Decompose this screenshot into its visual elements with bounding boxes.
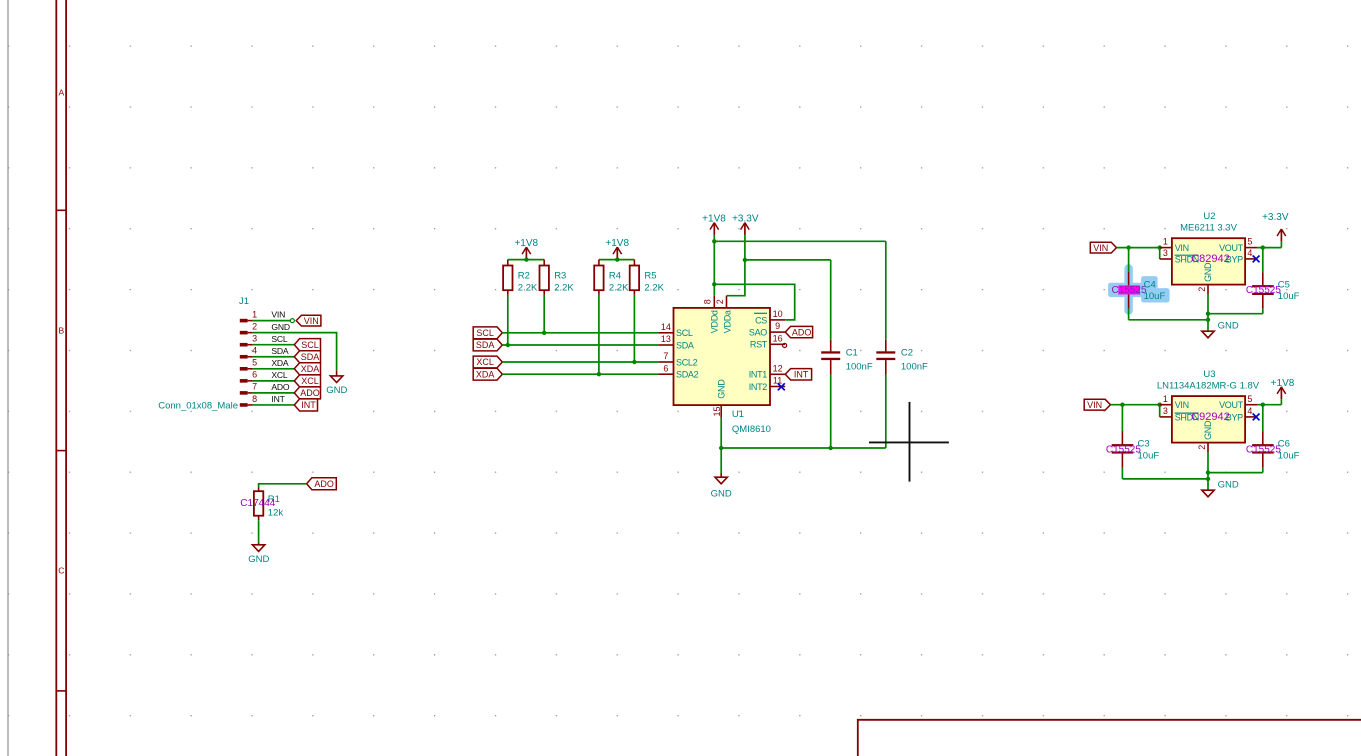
wire R4 to SDA2 <box>598 295 600 374</box>
U1 pin 15 GND <box>720 405 722 418</box>
GND pin stub at R1 <box>258 543 260 545</box>
global label ADO at U1 <box>785 326 812 337</box>
global label XDA bus-left <box>473 368 502 380</box>
global label SCL at J1 <box>294 339 320 351</box>
U1 pin 6 SDA2 <box>658 373 673 375</box>
svg-text:9: 9 <box>775 321 780 331</box>
svg-text:12: 12 <box>773 363 783 373</box>
no-connect cross U3 BYP <box>1253 414 1260 421</box>
wire VIN to U2 <box>1117 247 1160 249</box>
svg-text:C4: C4 <box>1144 279 1156 290</box>
border tick A/B <box>56 209 66 211</box>
global label VIN at J1 <box>296 315 321 326</box>
power symbol +3.3V at U2 <box>1280 229 1282 241</box>
wire U3 VOUT to +1V8 <box>1257 404 1281 406</box>
U1 pin 9 SAO <box>770 331 785 333</box>
wire J1 pin 5 to XDA label <box>253 368 295 370</box>
svg-text:1: 1 <box>252 309 257 319</box>
svg-text:VIN: VIN <box>1087 400 1102 410</box>
svg-text:VIN: VIN <box>1175 400 1189 410</box>
wire U2 gnd to C5 <box>1208 313 1263 315</box>
svg-text:LN1134A182MR-G 1.8V: LN1134A182MR-G 1.8V <box>1157 380 1260 391</box>
svg-text:GND: GND <box>717 379 727 399</box>
svg-text:10: 10 <box>773 309 783 319</box>
svg-text:C15525: C15525 <box>1246 445 1281 456</box>
power symbol +1V8 at U3 <box>1280 387 1282 399</box>
global label INT at U1 <box>785 369 811 380</box>
global label SCL bus-left <box>473 327 502 339</box>
global label ADO at J1 <box>294 387 320 399</box>
svg-text:SDA: SDA <box>301 352 320 362</box>
ground symbol at R1 <box>252 545 264 552</box>
wire R2 to SDA <box>507 295 509 345</box>
svg-text:+3.3V: +3.3V <box>1262 212 1289 223</box>
svg-text:15: 15 <box>712 406 722 416</box>
global label VIN at U3 <box>1084 399 1110 410</box>
dangling pin circle RST <box>783 343 787 347</box>
junction C6 tap <box>1261 403 1265 407</box>
svg-text:U3: U3 <box>1203 369 1215 380</box>
J1 pin 6 XCL <box>240 379 248 383</box>
svg-text:ADO: ADO <box>300 388 320 398</box>
svg-text:XCL: XCL <box>476 357 494 367</box>
IC U3 body <box>1172 396 1245 443</box>
wire GND rail to C1 C2 <box>721 447 886 449</box>
svg-text:2.2K: 2.2K <box>644 283 664 294</box>
U1 pin 7 SCL2 <box>658 361 673 363</box>
wire J1 pin 7 to ADO label <box>253 392 295 394</box>
wire ADO to R1 <box>259 484 307 487</box>
junction R3-SCL <box>542 331 546 335</box>
junction U2 pin1 <box>1158 245 1162 249</box>
junction R4-SDA2 <box>597 372 601 376</box>
svg-text:10uF: 10uF <box>1144 291 1166 302</box>
svg-text:SDA: SDA <box>271 346 289 356</box>
junction C3 tap <box>1120 403 1124 407</box>
selection halo C4 <box>1109 269 1170 311</box>
svg-text:C15525: C15525 <box>1246 285 1281 296</box>
svg-text:8: 8 <box>252 394 257 404</box>
capacitor C3 <box>1121 405 1123 431</box>
ground symbol at U1 <box>715 477 727 484</box>
svg-text:U2: U2 <box>1203 211 1215 222</box>
title block frame corner <box>858 720 1361 756</box>
svg-text:10uF: 10uF <box>1278 450 1300 461</box>
J1 pin 7 ADO <box>240 391 248 395</box>
global label XCL at J1 <box>294 375 320 387</box>
svg-text:2.2K: 2.2K <box>554 283 574 294</box>
U1 pin 12 INT1 <box>770 373 785 375</box>
svg-text:R4: R4 <box>609 271 621 282</box>
svg-text:2.2K: 2.2K <box>609 283 629 294</box>
svg-text:5: 5 <box>1247 237 1252 247</box>
svg-text:1: 1 <box>1163 394 1168 404</box>
wire +1V8 to VDDd <box>713 235 715 296</box>
wire R1 to GND <box>258 520 260 543</box>
ground symbol at U2 <box>1202 331 1214 338</box>
wire jog to U3 pin3 <box>1159 405 1161 417</box>
U3 pin 5 VOUT <box>1245 404 1257 406</box>
junction U2 gnd left <box>1206 318 1210 322</box>
no-connect cross U2 BYP <box>1253 256 1260 263</box>
svg-text:C15525: C15525 <box>1106 445 1141 456</box>
svg-text:5: 5 <box>1247 394 1252 404</box>
svg-text:6: 6 <box>663 363 668 373</box>
svg-text:GND: GND <box>1218 320 1239 331</box>
svg-text:7: 7 <box>252 382 257 392</box>
svg-text:2: 2 <box>1197 287 1207 292</box>
svg-text:5: 5 <box>252 358 257 368</box>
svg-text:GND: GND <box>711 489 732 500</box>
J1 pin 8 INT <box>240 403 248 407</box>
GND pin stub U1 <box>720 474 722 478</box>
GND pin stub at J1 <box>336 370 338 376</box>
svg-text:XDA: XDA <box>301 364 320 374</box>
U3 pin 4 BYP <box>1245 416 1257 418</box>
power symbol +1V8 over R2 R3 <box>525 247 527 260</box>
svg-text:INT: INT <box>271 394 285 404</box>
wire U3 gnd to C6 <box>1208 472 1263 474</box>
IC U1 body <box>674 308 771 405</box>
IC U2 body <box>1172 238 1245 284</box>
junction U3 gnd left <box>1206 477 1210 481</box>
svg-text:XDA: XDA <box>271 358 289 368</box>
wire +1V8 rail to R4 R5 <box>599 259 635 261</box>
svg-text:C82942: C82942 <box>1191 253 1230 265</box>
svg-text:CS: CS <box>755 315 767 325</box>
capacitor C5 <box>1262 248 1264 273</box>
svg-text:SDA: SDA <box>676 340 694 350</box>
svg-text:14: 14 <box>661 322 671 332</box>
svg-text:C15525: C15525 <box>1112 285 1147 296</box>
no-connect cross INT2 <box>778 383 785 390</box>
wire U2 GND down <box>1207 294 1209 331</box>
svg-text:3: 3 <box>1163 248 1168 258</box>
svg-text:16: 16 <box>773 333 783 343</box>
wire SCL to U1 <box>502 332 658 334</box>
svg-text:10uF: 10uF <box>1278 291 1300 302</box>
wire VDDd to CS <box>714 284 794 320</box>
wire J1 pin 3 to SCL label <box>253 344 295 346</box>
ground symbol at J1 <box>330 376 342 383</box>
svg-text:1: 1 <box>1163 237 1168 247</box>
wire +1V8 rail to R2 R3 <box>508 259 544 261</box>
junction +3.3V-C1 <box>743 258 747 262</box>
svg-text:100nF: 100nF <box>846 362 873 373</box>
wire jog to U2 pin3 <box>1159 248 1161 259</box>
svg-text:INT1: INT1 <box>749 370 768 380</box>
svg-text:2.2K: 2.2K <box>518 283 538 294</box>
svg-text:2: 2 <box>715 299 725 304</box>
svg-text:SCL: SCL <box>301 340 319 350</box>
svg-text:R2: R2 <box>518 271 530 282</box>
U1 pin 13 SDA <box>658 344 673 346</box>
junction R2-SDA <box>506 343 510 347</box>
capacitor C2 <box>885 241 887 339</box>
svg-text:GND: GND <box>271 322 290 332</box>
svg-text:A: A <box>58 88 64 98</box>
U2 pin 4 BYP <box>1245 258 1257 260</box>
power symbol +1V8 at U1 <box>713 223 715 235</box>
svg-text:VIN: VIN <box>1093 243 1108 253</box>
svg-text:+1V8: +1V8 <box>514 238 538 249</box>
power symbol +1V8 over R4 R5 <box>616 247 618 260</box>
U1 pin 14 SCL <box>658 332 673 334</box>
svg-text:INT2: INT2 <box>749 382 768 392</box>
wire J1 pin 6 to XCL label <box>253 380 295 382</box>
svg-text:4: 4 <box>252 346 257 356</box>
capacitor C4 selected <box>1128 248 1130 272</box>
svg-text:SCL: SCL <box>676 328 693 338</box>
U2 pin 3 SHDN <box>1160 258 1172 260</box>
svg-text:RST: RST <box>750 340 768 350</box>
svg-text:VIN: VIN <box>1175 243 1189 253</box>
svg-text:INT: INT <box>794 370 809 380</box>
resistor R1 <box>258 487 260 491</box>
svg-text:GND: GND <box>326 385 347 396</box>
J1 pin 3 SCL <box>240 343 248 347</box>
wire R5 to SCL2 <box>633 295 635 362</box>
U2 pin 1 VIN <box>1160 247 1172 249</box>
svg-text:VDDa: VDDa <box>722 310 732 333</box>
svg-text:XDA: XDA <box>476 369 495 379</box>
svg-text:XCL: XCL <box>271 370 288 380</box>
svg-text:VDDd: VDDd <box>710 310 720 333</box>
svg-text:+1V8: +1V8 <box>1271 378 1295 389</box>
svg-text:+1V8: +1V8 <box>605 238 629 249</box>
junction C5 tap <box>1261 245 1265 249</box>
svg-text:8: 8 <box>703 299 713 304</box>
svg-text:+3.3V: +3.3V <box>732 213 759 224</box>
U3 pin 1 VIN <box>1160 404 1172 406</box>
global label ADO at R1 <box>307 478 337 490</box>
sheet border left column <box>55 0 57 756</box>
svg-text:C17444: C17444 <box>240 498 275 509</box>
svg-text:6: 6 <box>252 370 257 380</box>
svg-text:INT: INT <box>301 400 316 410</box>
svg-text:ADO: ADO <box>792 327 812 337</box>
wire SDA to U1 <box>502 344 658 346</box>
U2 pin 5 VOUT <box>1245 247 1257 249</box>
junction U1 GND <box>719 446 723 450</box>
wire U2 VOUT to +3.3V <box>1257 247 1281 249</box>
svg-text:100nF: 100nF <box>901 362 928 373</box>
svg-text:ME6211 3.3V: ME6211 3.3V <box>1180 222 1238 233</box>
svg-text:2: 2 <box>252 321 257 331</box>
resistor R5 <box>633 260 635 266</box>
svg-text:QMI8610: QMI8610 <box>732 424 771 435</box>
svg-text:C1: C1 <box>846 348 858 359</box>
svg-text:ADO: ADO <box>271 382 290 392</box>
wire XDA to U1 <box>502 373 658 375</box>
svg-text:13: 13 <box>661 334 671 344</box>
J1 pin 5 XDA <box>240 367 248 371</box>
U1 pin 16 RST <box>770 343 785 345</box>
junction U3 gnd right <box>1206 470 1210 474</box>
capacitor C1 <box>830 260 832 340</box>
svg-text:C3: C3 <box>1138 439 1150 450</box>
wire J1 pin 8 to INT label <box>253 404 295 406</box>
U1 pin 10 CS <box>770 319 785 321</box>
border tick C/D <box>56 690 66 692</box>
svg-text:SCL2: SCL2 <box>676 357 698 367</box>
svg-text:10uF: 10uF <box>1138 450 1160 461</box>
svg-text:GND: GND <box>1218 479 1239 490</box>
svg-text:XCL: XCL <box>301 376 319 386</box>
page edge line <box>7 0 9 756</box>
junction C1 GND <box>829 446 833 450</box>
svg-text:U1: U1 <box>732 409 744 420</box>
svg-text:ADO: ADO <box>314 479 334 489</box>
wire J1 pin1 to VIN label <box>253 320 291 322</box>
junction VDDd net upper <box>712 239 716 243</box>
svg-text:SCL: SCL <box>476 328 494 338</box>
U1 pin 2 VDDa <box>726 296 728 308</box>
J1 pin 2 GND <box>240 331 248 335</box>
wire U3 GND down <box>1207 452 1209 490</box>
svg-text:3: 3 <box>252 334 257 344</box>
svg-text:VOUT: VOUT <box>1219 400 1244 410</box>
svg-text:C2: C2 <box>901 348 913 359</box>
svg-text:J1: J1 <box>239 296 249 307</box>
svg-text:C92942: C92942 <box>1191 411 1230 423</box>
svg-text:VIN: VIN <box>304 316 319 326</box>
svg-text:+1V8: +1V8 <box>702 213 726 224</box>
svg-text:SDA2: SDA2 <box>676 370 699 380</box>
svg-text:R5: R5 <box>644 271 656 282</box>
J1 pin 1 VIN <box>240 319 248 323</box>
global label INT at J1 <box>294 399 317 411</box>
global label SDA bus-left <box>473 339 502 351</box>
J1 pin 4 SDA <box>240 355 248 359</box>
svg-text:C6: C6 <box>1278 439 1290 450</box>
U1 CS overbar <box>754 312 767 314</box>
wire U1 GND down <box>720 418 722 474</box>
global label SDA at J1 <box>294 351 320 363</box>
wire J1 pin 4 to SDA label <box>253 356 295 358</box>
svg-text:R3: R3 <box>554 271 566 282</box>
ground symbol at U3 <box>1202 490 1214 497</box>
svg-text:Conn_01x08_Male: Conn_01x08_Male <box>158 401 238 412</box>
U1 pin 8 VDDd <box>713 296 715 308</box>
junction +1V8 R4R5 <box>615 257 619 261</box>
svg-text:SDA: SDA <box>476 340 495 350</box>
junction C4 tap <box>1126 245 1130 249</box>
capacitor C6 <box>1262 405 1264 432</box>
resistor R3 <box>543 260 545 266</box>
wire J1 pin2 GND <box>253 333 337 371</box>
power symbol +3.3V at U1 <box>744 223 746 235</box>
svg-text:2: 2 <box>1197 445 1207 450</box>
resistor R2 <box>507 260 509 266</box>
border tick B/C <box>56 450 66 452</box>
dangling wire end circle <box>290 319 294 323</box>
svg-text:GND: GND <box>248 554 269 565</box>
junction R5-SCL2 <box>632 360 636 364</box>
wire C3 to U3 gnd <box>1122 478 1208 480</box>
svg-text:3: 3 <box>1163 406 1168 416</box>
resistor R4 <box>598 260 600 266</box>
wire XCL to U1 <box>502 361 658 363</box>
global label VIN at U2 <box>1090 242 1116 253</box>
U3 pin 2 GND <box>1207 443 1209 452</box>
U1 pin 11 INT2 <box>770 386 785 388</box>
U3 pin 3 SHDN <box>1160 416 1172 418</box>
junction +1V8 R2R3 <box>524 257 528 261</box>
svg-text:4: 4 <box>1247 406 1252 416</box>
cursor crosshair <box>909 402 911 482</box>
svg-text:7: 7 <box>663 351 668 361</box>
global label XCL bus-left <box>473 356 502 368</box>
svg-text:C: C <box>58 566 64 576</box>
wire R3 to SCL <box>543 295 545 333</box>
U2 pin 2 GND <box>1207 285 1209 294</box>
svg-text:VIN: VIN <box>271 310 285 320</box>
wire VDDa net to C1 <box>745 259 831 261</box>
junction U3 pin1 <box>1158 403 1162 407</box>
svg-text:SAO: SAO <box>749 328 767 338</box>
wire +3.3V to VDDa <box>727 235 745 296</box>
junction U2 gnd right <box>1206 312 1210 316</box>
global label XDA at J1 <box>294 363 320 375</box>
wire VIN to U3 <box>1110 404 1159 406</box>
junction VDDd net lower <box>712 282 716 286</box>
wire C4 to U2 gnd <box>1129 319 1208 321</box>
svg-text:SCL: SCL <box>271 334 288 344</box>
svg-text:VOUT: VOUT <box>1219 243 1244 253</box>
wire VDDd net to C2 <box>714 240 886 242</box>
svg-text:C5: C5 <box>1278 279 1290 290</box>
svg-text:4: 4 <box>1247 248 1252 258</box>
svg-text:B: B <box>58 326 64 336</box>
